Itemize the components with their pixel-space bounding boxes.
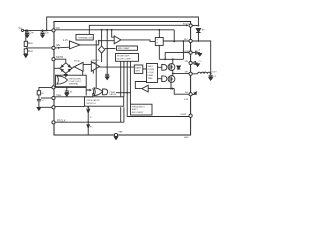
wire sense bottom: [148, 88, 174, 90]
node rail junction: [164, 58, 166, 60]
wire comb 1: [120, 61, 122, 122]
wire EN divider: [25, 53, 27, 56]
gate G3 PWM AND: [103, 89, 108, 95]
capacitor C6 right: [192, 51, 200, 55]
pin EN: [52, 46, 55, 49]
wire diamond down: [101, 53, 103, 62]
junction dots VIN rail: [26, 30, 47, 32]
svg-text:GND: GND: [184, 137, 189, 139]
wire comb 3: [126, 61, 128, 116]
box control logic: [147, 64, 158, 83]
wire to FB pin: [174, 89, 189, 95]
svg-text:REN2: REN2: [28, 50, 33, 53]
current source arrow 1: [87, 110, 90, 113]
capacitor C4 ref: [65, 87, 69, 93]
op-amp A2 1.2V reference: [70, 41, 81, 49]
capacitor C1 input: [25, 30, 29, 35]
wire VREG feed: [165, 53, 189, 60]
wire arrow sense: [172, 87, 174, 89]
op-amp A5 sense buffer left: [142, 85, 148, 92]
capacitor C8 out: [209, 73, 213, 77]
junction dots RT: [87, 106, 89, 123]
wire comb 4: [129, 61, 131, 104]
ground: [25, 35, 29, 38]
node boost junction: [173, 41, 175, 43]
svg-text:CB: CB: [198, 50, 201, 52]
wire boot cap: [192, 41, 211, 73]
pin SS: [52, 58, 55, 61]
node branch junction: [111, 29, 113, 31]
svg-text:OSCILLATOR: OSCILLATOR: [87, 99, 100, 102]
svg-text:LOGIC: LOGIC: [148, 72, 155, 74]
svg-text:IP: IP: [90, 117, 92, 119]
svg-text:THERMAL: THERMAL: [69, 83, 80, 86]
ground PAD: [114, 137, 118, 140]
wire drain rail: [159, 58, 183, 60]
pin PAD bottom: [114, 133, 117, 136]
wire pin2 ext: [41, 97, 52, 99]
wire current source RT: [87, 107, 89, 135]
junction dot sense: [170, 88, 172, 90]
current source arrow 2: [87, 125, 90, 128]
capacitor C7 right: [192, 61, 197, 65]
svg-text:SS/TR: SS/TR: [56, 56, 63, 59]
wire pin3 to osc: [55, 105, 84, 107]
svg-text:PAD: PAD: [119, 131, 124, 134]
svg-text:VOUT: VOUT: [212, 72, 217, 74]
resistor R3 comp: [37, 91, 40, 95]
wire EN divider feed: [25, 30, 27, 41]
svg-text:AMP: AMP: [92, 61, 97, 64]
wire comparator to latch: [121, 40, 155, 42]
svg-text:BP: BP: [202, 30, 205, 32]
svg-text:RAMP: RAMP: [135, 67, 142, 70]
wire PWM out: [116, 92, 130, 94]
arrowhead hook: [194, 92, 196, 95]
svg-text:GEN: GEN: [135, 71, 140, 73]
ground: [196, 64, 200, 67]
svg-text:DOWN: DOWN: [148, 69, 155, 71]
svg-text:WITH PLL: WITH PLL: [87, 103, 97, 105]
diode bridge marks: [61, 64, 71, 72]
op-amp A4 error amplifier: [91, 62, 99, 72]
svg-text:S: S: [157, 40, 159, 42]
pin BOOT right: [189, 24, 192, 27]
node VIN left terminal: [21, 29, 23, 31]
pin FB: [189, 114, 192, 117]
gate G1 shutdown logic OR: [57, 76, 68, 84]
pin COMP mid: [52, 86, 55, 89]
svg-text:MIN CLAMP: MIN CLAMP: [118, 47, 130, 50]
svg-text:SW: SW: [185, 72, 188, 74]
junction dot SW: [172, 73, 174, 75]
capacitor C2 input: [41, 30, 45, 35]
pin 4 right: [189, 61, 192, 64]
box 6 freq shift: [131, 104, 153, 115]
wire box3 to box4: [143, 68, 147, 70]
wire arrow to BOOT: [186, 24, 188, 26]
wire UVLO down: [95, 40, 97, 88]
wire buffer to EA: [83, 63, 91, 65]
wire bridge to buffer: [72, 67, 74, 69]
junction dot ref: [66, 87, 68, 89]
latch box: [155, 38, 163, 46]
IC boundary box: [54, 22, 191, 136]
wire comparator upper input branch: [112, 30, 115, 37]
wire top VIN rail: [47, 17, 199, 30]
ground: [24, 55, 28, 58]
transistor Q1 high side: [168, 64, 175, 71]
wire cap feed: [106, 30, 108, 75]
wire latch to BOOT pin: [163, 40, 189, 42]
ground: [105, 77, 109, 80]
wire EN external: [26, 47, 52, 49]
inductor L1: [192, 72, 211, 74]
svg-text:BST: BST: [184, 39, 189, 41]
svg-text:IH: IH: [90, 127, 93, 129]
svg-text:R: R: [157, 43, 159, 45]
wire FB long: [127, 116, 189, 118]
svg-text:1.2V: 1.2V: [63, 39, 68, 42]
junction dot: [198, 25, 200, 27]
junction dots internal rail: [101, 29, 161, 31]
pin 2 right: [189, 39, 192, 42]
wire FB hook: [192, 92, 195, 94]
wire boot vertical: [182, 41, 184, 59]
diode D boot charge: [196, 29, 200, 41]
svg-text:CO: CO: [213, 76, 217, 78]
wire EN to amp: [55, 46, 69, 49]
junction dot: [198, 40, 200, 42]
ground pin3 ext: [37, 108, 41, 111]
driver gate 2: [162, 76, 167, 82]
wire diamond to clamp box: [105, 48, 116, 50]
svg-text:RT/CLK: RT/CLK: [57, 120, 66, 123]
wire EA output: [100, 66, 135, 68]
driver gate 1: [162, 65, 167, 71]
svg-text:TIME: TIME: [148, 78, 154, 80]
ground: [209, 78, 213, 81]
wire latch down: [158, 45, 160, 59]
svg-text:THERMAL UVLO: THERMAL UVLO: [78, 37, 94, 40]
wire VIN input: [24, 29, 52, 31]
node reference junction: [98, 40, 100, 42]
svg-text:VIN: VIN: [56, 27, 60, 30]
gate G2 PWM OR: [93, 88, 103, 96]
svg-text:5 µA: 5 µA: [86, 107, 91, 110]
wire latch set input: [158, 30, 160, 38]
box slope comp 1: [117, 46, 138, 50]
current source I1 diamond: [98, 46, 104, 53]
svg-text:REN1: REN1: [28, 42, 33, 45]
wire bridge bottom: [65, 73, 67, 75]
wire FET drain: [172, 59, 174, 63]
diode bridge: [60, 63, 72, 74]
svg-text:SHUT: SHUT: [148, 66, 154, 68]
wire boost charge drop: [173, 30, 175, 42]
box slope comp 2: [116, 54, 139, 62]
junction dot VOUT: [210, 73, 212, 75]
wire internal top rail: [89, 25, 186, 34]
svg-text:VREF: VREF: [56, 94, 62, 97]
svg-text:0.8V: 0.8V: [184, 99, 189, 101]
wire RT/CLK: [55, 121, 124, 123]
svg-text:VREG: VREG: [184, 51, 190, 53]
pin VIN left: [52, 29, 55, 32]
svg-text:PULSE SKIP: PULSE SKIP: [117, 56, 130, 58]
svg-text:EN: EN: [57, 44, 61, 47]
wire FET2 source down: [170, 82, 172, 88]
svg-text:VIN: VIN: [185, 61, 189, 63]
wire gate feed vertical: [86, 87, 89, 96]
capacitor C5 comp: [37, 99, 41, 100]
wire c to gnd node: [38, 101, 40, 108]
svg-text:CC: CC: [42, 100, 46, 102]
svg-text:DEAD: DEAD: [148, 74, 154, 77]
wire buffer to logic: [135, 82, 146, 89]
svg-text:RC: RC: [42, 93, 46, 95]
svg-text:CIN: CIN: [45, 32, 49, 35]
pin FB right: [189, 93, 192, 96]
external RC network left: [39, 87, 52, 90]
box shutdown logic: [56, 75, 87, 87]
wire SW node: [173, 70, 189, 75]
svg-text:RECOVERY: RECOVERY: [132, 112, 144, 114]
svg-text:CO: CO: [199, 61, 203, 63]
pin SW right: [189, 72, 192, 75]
wire gate inputs: [83, 71, 94, 76]
wire arrow into gate: [64, 74, 67, 76]
resistor R2 EN divider: [24, 49, 27, 54]
wire driver stubs: [158, 67, 162, 78]
capacitor C3 comp internal: [105, 74, 109, 77]
junction dots rail: [172, 40, 184, 60]
wire bridge left to edge: [54, 67, 60, 69]
svg-text:0.8V: 0.8V: [68, 92, 73, 94]
wire SS to bridge: [55, 59, 66, 63]
diode body: [177, 66, 181, 69]
ground: [198, 53, 202, 56]
wire boot ext: [192, 25, 198, 27]
pin 2 mid: [52, 96, 55, 99]
wire arrow into PWM gate: [90, 89, 92, 92]
pin 3 right: [189, 51, 192, 54]
pin 3 mid: [52, 106, 55, 109]
wire pin2: [55, 94, 94, 97]
svg-text:SS dis: SS dis: [74, 61, 80, 63]
svg-text:SLOPE COMP: SLOPE COMP: [117, 59, 131, 61]
wire r to c: [38, 95, 40, 100]
wire current source feed: [101, 30, 103, 46]
ground: [65, 94, 69, 97]
svg-text:BOOT: BOOT: [183, 24, 190, 26]
wire comparator lower input: [80, 41, 114, 45]
transistor Q2 low side: [168, 76, 175, 83]
svg-text:LATCH: LATCH: [110, 93, 117, 96]
ground: [41, 35, 45, 38]
resistor R1 EN divider: [24, 41, 27, 46]
svg-text:CHF: CHF: [30, 32, 35, 35]
pin RT/CLK: [52, 121, 55, 124]
svg-text:COMP: COMP: [180, 114, 187, 116]
junction dot EA/cap: [106, 66, 108, 68]
op-amp A3 buffer left: [74, 62, 83, 71]
wire pin3 ext: [39, 106, 52, 108]
box ramp generator: [134, 65, 143, 73]
box oscillator 5a: [85, 97, 124, 106]
wire comp wire: [55, 86, 86, 88]
wire comb 2: [123, 61, 125, 122]
op-amp A1 enable comparator: [114, 36, 121, 44]
box U1 thermal shutdown UVLO: [76, 34, 93, 40]
wire VIN internal: [55, 29, 174, 31]
